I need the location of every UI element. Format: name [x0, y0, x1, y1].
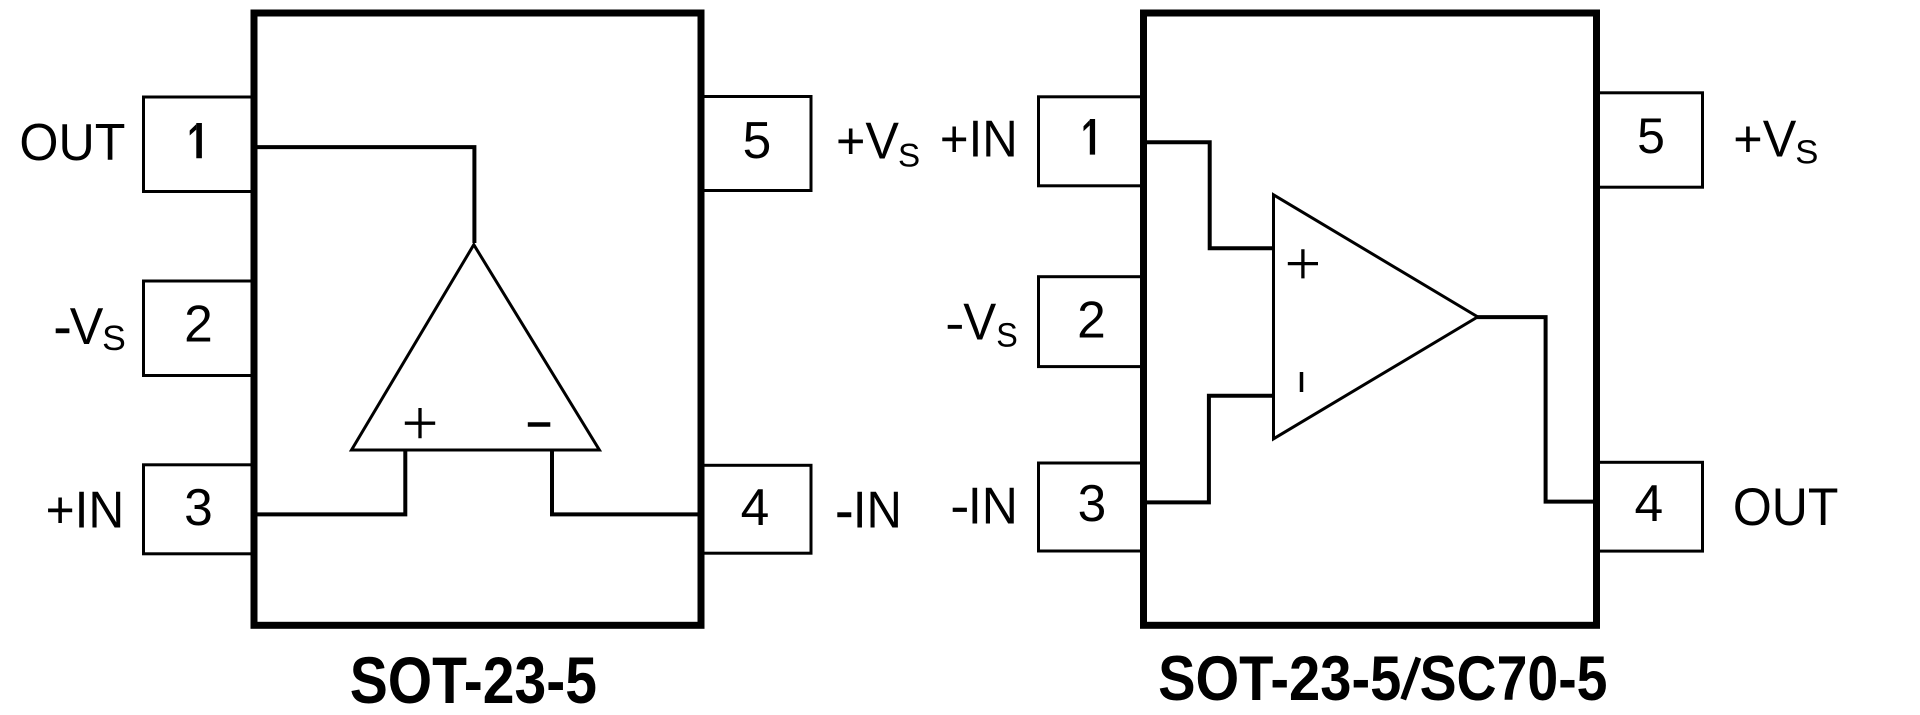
- wire pin1 to op-amp output (apex): [256, 147, 474, 243]
- svg-text:+V: +V: [836, 112, 900, 170]
- svg-text:+IN: +IN: [940, 110, 1018, 168]
- svg-text:2: 2: [184, 295, 213, 353]
- svg-text:4: 4: [741, 478, 770, 536]
- svg-text:IN: IN: [853, 480, 902, 538]
- pin 2 box (right pkg): [1039, 277, 1144, 367]
- svg-text:V: V: [963, 293, 997, 351]
- pin 2 box: [144, 281, 254, 376]
- pin 5 box (right pkg): [1597, 93, 1703, 187]
- svg-text:5: 5: [743, 111, 772, 169]
- svg-text:3: 3: [184, 478, 213, 536]
- svg-text:3: 3: [1078, 474, 1107, 532]
- package body U2 (SOT-23-5/SC70-5): [1144, 13, 1597, 625]
- pin 3 box (right pkg): [1039, 463, 1144, 551]
- op-amp A1 minus input mark: [528, 422, 551, 427]
- svg-text:2: 2: [1077, 291, 1106, 349]
- op-amp A2 minus input mark (vertical bar): [1300, 372, 1304, 392]
- pin 4 box: [701, 465, 812, 553]
- pin 5 box: [701, 97, 812, 191]
- pin 1 box (right pkg): [1039, 97, 1144, 186]
- label -IN (pin 3 right pkg): [953, 508, 967, 512]
- label -Vs (pin 2 right pkg): [948, 325, 962, 329]
- svg-text:OUT: OUT: [1733, 478, 1839, 537]
- wire +input stub to pin 3: [256, 450, 405, 514]
- svg-text:+V: +V: [1733, 110, 1797, 168]
- svg-text:V: V: [70, 297, 104, 355]
- op-amp A1 triangle (pointing up): [352, 245, 600, 450]
- wire -input stub to pin 4: [552, 450, 699, 514]
- wire pin3 to -input (right pkg): [1146, 396, 1274, 503]
- op-amp A2 triangle (pointing right): [1274, 195, 1478, 439]
- op-amp A2 plus input mark: [1288, 249, 1318, 278]
- pin 1 box: [144, 97, 254, 192]
- pin 3 box: [144, 465, 254, 554]
- svg-text:IN: IN: [968, 477, 1018, 535]
- svg-text:5: 5: [1637, 108, 1665, 164]
- svg-text:OUT: OUT: [19, 113, 125, 171]
- op-amp A1 plus input mark: [405, 408, 435, 438]
- pin 1 number (right pkg): [1084, 119, 1096, 155]
- label -IN (pin 4): [837, 512, 851, 517]
- svg-text:SOT-23-5: SOT-23-5: [1158, 644, 1401, 714]
- wire op-amp output to pin 4 (right pkg): [1477, 317, 1594, 502]
- svg-text:SC70-5: SC70-5: [1420, 644, 1608, 714]
- pin 1 number: [190, 123, 202, 158]
- pin 4 box (right pkg): [1597, 462, 1703, 551]
- svg-text:+IN: +IN: [46, 481, 125, 539]
- svg-text:SOT-23-5: SOT-23-5: [350, 643, 597, 715]
- svg-text:4: 4: [1634, 474, 1663, 532]
- package body U1 (SOT-23-5): [254, 13, 701, 625]
- wire pin1 to +input (right pkg): [1146, 142, 1274, 248]
- label -Vs (pin 2): [56, 328, 70, 333]
